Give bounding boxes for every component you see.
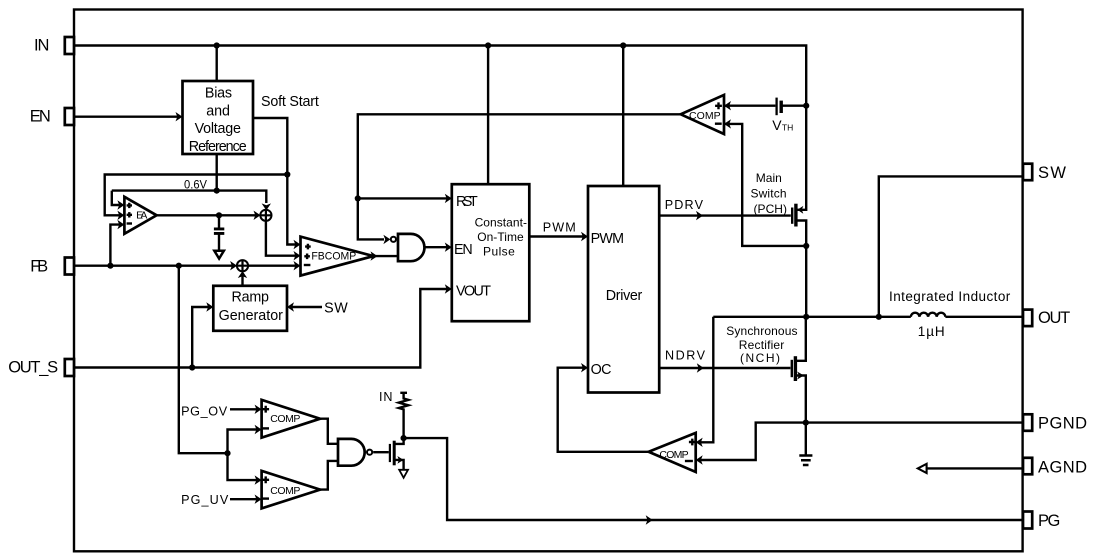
svg-text:AGND: AGND [1038,458,1087,476]
svg-text:SW: SW [324,300,348,316]
svg-text:OUT: OUT [1038,309,1070,327]
svg-text:PG_UV: PG_UV [181,493,229,507]
svg-text:PG_OV: PG_OV [181,405,228,419]
svg-text:NDRV: NDRV [665,349,706,363]
svg-text:SW: SW [1038,164,1066,182]
svg-text:Rectifier: Rectifier [739,338,785,352]
svg-text:Ramp: Ramp [232,289,270,305]
svg-text:PWM: PWM [591,231,624,247]
svg-text:COMP: COMP [689,110,721,122]
svg-text:PDRV: PDRV [665,198,704,212]
svg-text:COMP: COMP [270,413,300,425]
svg-text:Switch: Switch [751,187,787,201]
svg-text:Soft Start: Soft Start [261,94,319,110]
svg-text:Voltage: Voltage [195,121,241,137]
svg-text:COMP: COMP [659,449,688,461]
svg-text:PG: PG [1038,512,1060,530]
svg-text:TH: TH [782,123,793,133]
svg-text:Pulse: Pulse [483,244,515,258]
svg-text:IN: IN [34,37,49,55]
svg-text:RST: RST [456,194,478,210]
svg-text:Constant-: Constant- [475,215,527,229]
svg-text:PGND: PGND [1038,415,1087,433]
svg-text:Main: Main [756,171,782,185]
svg-text:V: V [772,117,782,133]
svg-text:and: and [206,103,230,119]
svg-text:EN: EN [454,242,473,258]
svg-text:Reference: Reference [189,139,247,155]
svg-text:OUT_S: OUT_S [8,359,58,377]
svg-text:Bias: Bias [205,85,232,101]
svg-text:EA: EA [136,210,147,222]
svg-text:PWM: PWM [543,221,576,235]
svg-text:Generator: Generator [219,308,284,324]
svg-text:Integrated Inductor: Integrated Inductor [889,289,1011,304]
svg-text:EN: EN [30,108,51,126]
svg-text:0.6V: 0.6V [184,179,207,191]
svg-text:FBCOMP: FBCOMP [311,251,356,263]
svg-text:IN: IN [379,390,393,404]
svg-text:On-Time: On-Time [477,230,524,244]
svg-text:Driver: Driver [606,288,643,304]
svg-text:FB: FB [30,258,48,276]
svg-text:1µH: 1µH [918,324,945,339]
svg-text:Synchronous: Synchronous [726,324,797,338]
svg-text:VOUT: VOUT [456,284,491,300]
svg-text:OC: OC [591,362,612,378]
svg-text:(NCH): (NCH) [740,351,780,365]
svg-text:(PCH): (PCH) [754,202,788,216]
svg-text:COMP: COMP [270,485,300,497]
